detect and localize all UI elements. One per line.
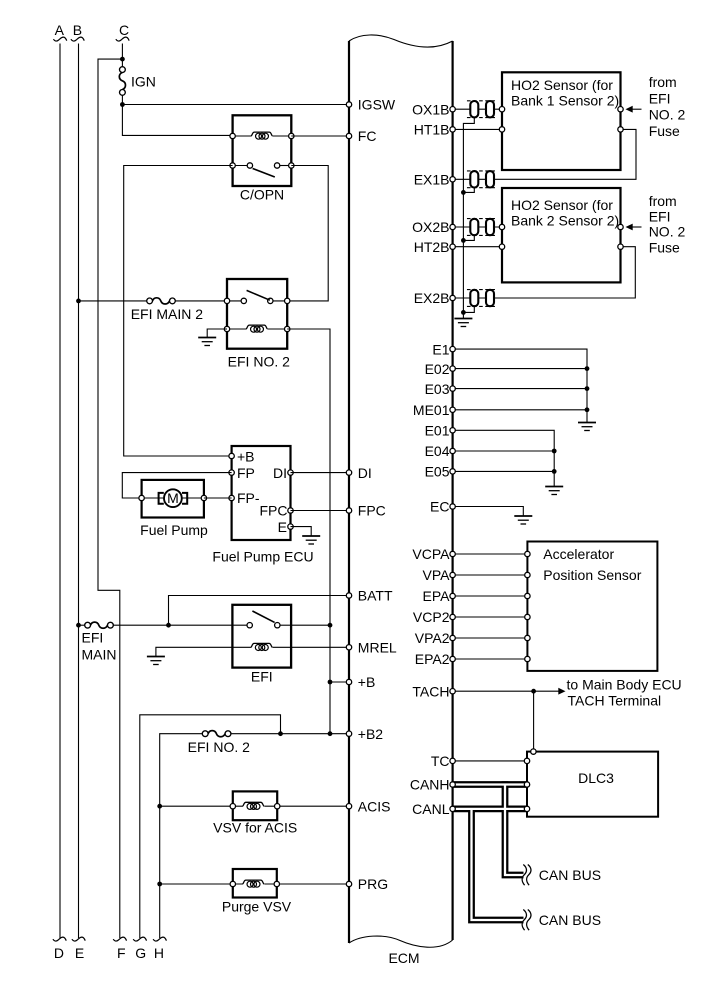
accelerator sensor pins bbox=[525, 551, 530, 661]
relay EFI NO.2 box bbox=[227, 279, 287, 349]
svg-text:Fuse: Fuse bbox=[649, 123, 680, 139]
shield drain OX2B bbox=[463, 235, 474, 240]
svg-text:from: from bbox=[649, 193, 677, 209]
label to Main Body ECU bbox=[567, 677, 682, 693]
wire FPC row bbox=[291, 510, 350, 512]
wire C upper segment bbox=[122, 44, 233, 137]
label EFI MAIN bbox=[82, 630, 117, 663]
Fuel Pump row wire bbox=[142, 497, 204, 499]
label Fuel Pump bbox=[140, 522, 208, 538]
break on wire A top bbox=[53, 37, 66, 41]
svg-text:E: E bbox=[278, 519, 287, 535]
Purge VSV pins bbox=[230, 881, 279, 886]
svg-text:FC: FC bbox=[358, 128, 377, 144]
svg-text:+B2: +B2 bbox=[358, 726, 384, 742]
break on wire H bottom bbox=[153, 937, 166, 941]
fuse EFI MAIN 2 bbox=[147, 298, 176, 304]
C/OPN pins bbox=[230, 133, 294, 168]
svg-text:E03: E03 bbox=[425, 381, 450, 397]
svg-text:OX2B: OX2B bbox=[412, 219, 449, 235]
svg-text:EFI: EFI bbox=[82, 630, 104, 646]
svg-text:Purge VSV: Purge VSV bbox=[222, 899, 292, 915]
svg-text:E: E bbox=[75, 945, 84, 961]
label ECM bbox=[388, 950, 419, 966]
junction drain OX2B bbox=[461, 238, 466, 243]
svg-text:EPA2: EPA2 bbox=[415, 651, 450, 667]
label EFI NO. 2 relay bbox=[228, 354, 290, 370]
ECM bottom edge wavy bbox=[349, 936, 453, 947]
junction BATT tap bbox=[166, 623, 171, 628]
junction TACH bbox=[531, 689, 536, 694]
junction E03 bbox=[585, 386, 590, 391]
EFI switch row wire bbox=[232, 624, 291, 626]
svg-text:to Main Body ECU: to Main Body ECU bbox=[567, 677, 682, 693]
DLC3 pins bbox=[524, 749, 536, 812]
junction +B column to +B2 row bbox=[328, 731, 333, 736]
shield drain EX1B bbox=[463, 188, 474, 193]
label FP- bbox=[237, 490, 260, 506]
connector OX2B bbox=[467, 219, 497, 236]
junction IGN to IGSW bbox=[120, 102, 125, 107]
junction E05 bbox=[552, 469, 557, 474]
wire PRG row bbox=[160, 883, 349, 885]
VSV for ACIS box bbox=[233, 791, 277, 820]
label C/OPN bbox=[240, 187, 284, 203]
svg-text:ACIS: ACIS bbox=[358, 798, 391, 814]
wire E04 row bbox=[453, 450, 555, 452]
svg-text:F: F bbox=[117, 945, 126, 961]
svg-text:EFI MAIN 2: EFI MAIN 2 bbox=[131, 306, 204, 322]
C/OPN switch contacts bbox=[247, 163, 280, 168]
svg-text:B: B bbox=[73, 22, 82, 38]
ECM left edge bbox=[348, 41, 350, 943]
label G bbox=[135, 945, 146, 961]
label FPC inside bbox=[260, 503, 288, 519]
EFI NO.2 switch lever bbox=[247, 290, 270, 300]
junction B to EFI MAIN bbox=[76, 623, 81, 628]
ground EFI NO.2 coil bbox=[198, 338, 216, 346]
svg-text:CAN BUS: CAN BUS bbox=[539, 912, 601, 928]
label +B bbox=[237, 448, 255, 464]
svg-text:VPA: VPA bbox=[423, 567, 451, 583]
break on wire B bottom bbox=[72, 937, 85, 941]
svg-text:FPC: FPC bbox=[260, 503, 288, 519]
wire HT2B row bbox=[453, 246, 502, 248]
wire EFI MAIN row bbox=[79, 624, 233, 626]
HO2 bank1 pins bbox=[499, 107, 623, 133]
arrow from fuse bank1 bbox=[626, 106, 642, 113]
wire EFI NO.2 coil to ground bbox=[207, 329, 227, 338]
CAN bus CANL white core bbox=[453, 809, 527, 920]
svg-text:ECM: ECM bbox=[388, 950, 419, 966]
wire ME01 row bbox=[453, 409, 587, 411]
break on wire G bottom bbox=[133, 937, 146, 941]
Fuel Pump ECU box bbox=[232, 446, 291, 540]
EFI switch lever bbox=[252, 611, 274, 622]
ground Fuel Pump ECU E bbox=[302, 536, 320, 544]
svg-text:EX2B: EX2B bbox=[414, 290, 450, 306]
Fuel Pump ECU right pins bbox=[288, 470, 293, 529]
coil of Purge VSV bbox=[243, 880, 265, 887]
shield drain bus bbox=[463, 118, 474, 313]
svg-text:NO. 2: NO. 2 bbox=[649, 224, 686, 240]
junction EFI switch to +B column bbox=[328, 623, 333, 628]
ground EFI coil bbox=[147, 657, 165, 665]
ground shield drain bbox=[454, 319, 472, 327]
svg-text:VCPA: VCPA bbox=[412, 546, 450, 562]
label HO2 bank2 line1 bbox=[511, 197, 613, 213]
fuse EFI NO. 2 bbox=[202, 731, 231, 737]
svg-text:Accelerator: Accelerator bbox=[543, 546, 614, 562]
wire EFI MAIN 2 row bbox=[79, 300, 228, 302]
ECM left pin labels bbox=[358, 97, 397, 893]
svg-text:E05: E05 bbox=[425, 464, 450, 480]
svg-text:VPA2: VPA2 bbox=[415, 630, 450, 646]
wire HT1B row bbox=[453, 128, 502, 130]
Fuel Pump ECU left pins bbox=[229, 453, 234, 500]
svg-text:FPC: FPC bbox=[358, 503, 386, 519]
wire C/OPN switch right down to EFI NO.2 bbox=[288, 166, 328, 301]
wire OX1B row bbox=[453, 108, 502, 110]
wire ACIS row bbox=[160, 805, 349, 807]
wire TC row bbox=[453, 760, 527, 762]
label D bbox=[54, 945, 64, 961]
svg-text:Fuse: Fuse bbox=[649, 240, 680, 256]
svg-text:IGSW: IGSW bbox=[358, 97, 396, 113]
svg-text:Fuel Pump ECU: Fuel Pump ECU bbox=[212, 549, 313, 565]
EFI NO.2 pins bbox=[224, 298, 290, 332]
junction drain EX1B bbox=[461, 190, 466, 195]
ground EC bbox=[514, 516, 532, 524]
svg-text:EFI: EFI bbox=[649, 208, 671, 224]
wire C/OPN switch left to F column bbox=[124, 166, 233, 457]
label EFI MAIN 2 bbox=[131, 306, 204, 322]
wire MREL row bbox=[291, 646, 349, 648]
wire A bbox=[59, 44, 61, 939]
svg-text:Position Sensor: Position Sensor bbox=[543, 567, 641, 583]
arrow from fuse bank2 bbox=[626, 224, 642, 231]
label F bbox=[117, 945, 126, 961]
HO2 sensor bank1 box bbox=[502, 72, 621, 170]
wire FP- row bbox=[204, 497, 232, 499]
connector OX1B bbox=[467, 101, 497, 118]
svg-text:EPA: EPA bbox=[423, 588, 451, 604]
ground E1 group bbox=[578, 423, 596, 431]
coil of EFI relay bbox=[251, 643, 273, 650]
svg-text:ME01: ME01 bbox=[413, 402, 450, 418]
wire branch C to F bbox=[98, 59, 122, 938]
svg-text:HO2 Sensor (for: HO2 Sensor (for bbox=[511, 197, 613, 213]
svg-text:PRG: PRG bbox=[358, 876, 388, 892]
junction H to ACIS bbox=[157, 804, 162, 809]
svg-text:C: C bbox=[119, 22, 129, 38]
wire +B row bbox=[330, 681, 349, 683]
wire E03 row bbox=[453, 388, 587, 390]
label CAN BUS 2 bbox=[539, 912, 601, 928]
junction +B bbox=[328, 680, 333, 685]
label HO2 bank2 line2 bbox=[511, 212, 619, 228]
svg-text:Fuel Pump: Fuel Pump bbox=[140, 522, 208, 538]
EFI coil row wire bbox=[232, 646, 291, 648]
Purge VSV box bbox=[233, 869, 277, 898]
wire FP loop bbox=[122, 473, 231, 498]
connector EX2B bbox=[467, 290, 497, 307]
label Position Sensor bbox=[543, 567, 641, 583]
wire OX2B row bbox=[453, 226, 502, 228]
svg-text:from: from bbox=[649, 74, 677, 90]
coil of C/OPN bbox=[251, 132, 273, 139]
wire TACH row bbox=[453, 690, 559, 692]
fuse IGN bbox=[119, 67, 125, 96]
svg-text:E02: E02 bbox=[425, 361, 450, 377]
svg-text:EX1B: EX1B bbox=[414, 172, 450, 188]
svg-text:C/OPN: C/OPN bbox=[240, 187, 284, 203]
break CAN BUS 1 bbox=[522, 865, 531, 886]
junction E02 bbox=[585, 366, 590, 371]
svg-text:TACH Terminal: TACH Terminal bbox=[568, 692, 662, 708]
svg-text:HT1B: HT1B bbox=[414, 122, 450, 138]
break on wire B top bbox=[71, 37, 84, 41]
wire EX1B row bbox=[453, 129, 636, 179]
svg-text:Bank 1 Sensor 2): Bank 1 Sensor 2) bbox=[511, 93, 619, 109]
svg-text:MAIN: MAIN bbox=[82, 647, 117, 663]
wire E1 row bbox=[453, 349, 587, 422]
svg-text:+B: +B bbox=[237, 448, 255, 464]
coil of EFI NO.2 bbox=[246, 325, 268, 332]
svg-text:+B: +B bbox=[358, 674, 376, 690]
svg-text:CANL: CANL bbox=[412, 801, 450, 817]
wire EX2B row bbox=[453, 247, 636, 298]
svg-text:FP: FP bbox=[237, 465, 255, 481]
svg-text:A: A bbox=[55, 22, 65, 38]
svg-text:EFI: EFI bbox=[649, 90, 671, 106]
label Accelerator bbox=[543, 546, 614, 562]
label TACH Terminal bbox=[568, 692, 662, 708]
ECM right edge bbox=[452, 41, 454, 940]
HO2 sensor bank2 box bbox=[502, 188, 621, 282]
label A bbox=[55, 22, 65, 38]
wire G bbox=[140, 715, 281, 938]
label EFI relay bbox=[251, 669, 273, 685]
label Purge VSV bbox=[222, 899, 292, 915]
wire TACH to DLC3 bbox=[533, 691, 535, 751]
svg-text:H: H bbox=[154, 945, 164, 961]
DLC3 box bbox=[527, 752, 658, 817]
wire E05 row bbox=[453, 470, 555, 472]
svg-text:HO2 Sensor (for: HO2 Sensor (for bbox=[511, 77, 613, 93]
arrow to Main Body ECU bbox=[558, 688, 565, 695]
label B bbox=[73, 22, 82, 38]
svg-text:EFI NO. 2: EFI NO. 2 bbox=[228, 354, 290, 370]
svg-text:TC: TC bbox=[431, 753, 450, 769]
wires accelerator sensor rows bbox=[453, 554, 528, 659]
C/OPN switch lever bbox=[253, 169, 275, 178]
junction G to +B2 row bbox=[278, 731, 283, 736]
C/OPN switch row wire bbox=[233, 165, 292, 167]
break on wire C top bbox=[116, 37, 129, 41]
svg-text:EC: EC bbox=[430, 499, 449, 515]
wire E02 row bbox=[453, 368, 587, 370]
break CAN BUS 2 bbox=[522, 910, 531, 931]
break on wire F bottom bbox=[113, 937, 126, 941]
label DI inside bbox=[273, 465, 287, 481]
svg-text:E04: E04 bbox=[425, 443, 450, 459]
label Fuel Pump ECU bbox=[212, 549, 313, 565]
label CAN BUS 1 bbox=[539, 867, 601, 883]
break on wire A bottom bbox=[53, 937, 66, 941]
ECM top edge wavy bbox=[349, 35, 453, 47]
wire EFI coil to ground bbox=[156, 647, 233, 656]
svg-text:FP-: FP- bbox=[237, 490, 260, 506]
wire EC row bbox=[453, 507, 524, 517]
ECM left pin circles bbox=[346, 102, 351, 887]
junction B to EFI MAIN 2 bbox=[76, 299, 81, 304]
ECM right pin labels bbox=[410, 101, 450, 817]
label DLC3 bbox=[578, 770, 614, 786]
svg-text:Bank 2 Sensor 2): Bank 2 Sensor 2) bbox=[511, 212, 619, 228]
svg-text:HT2B: HT2B bbox=[414, 239, 450, 255]
CAN bus CANH black bbox=[453, 781, 527, 875]
wire DI row bbox=[291, 472, 350, 474]
junction ME01 bbox=[585, 407, 590, 412]
junction E04 bbox=[552, 449, 557, 454]
motor M circle bbox=[164, 489, 182, 507]
wire drain to ground bbox=[462, 312, 464, 318]
svg-text:CAN BUS: CAN BUS bbox=[539, 867, 601, 883]
svg-text:EFI: EFI bbox=[251, 669, 273, 685]
svg-text:M: M bbox=[167, 490, 179, 506]
coil of VSV for ACIS bbox=[243, 802, 265, 809]
C/OPN coil row wire bbox=[233, 135, 292, 137]
ground E01 group bbox=[545, 487, 563, 495]
junction H to PRG bbox=[157, 882, 162, 887]
svg-text:DLC3: DLC3 bbox=[578, 770, 614, 786]
wire EFI NO.2 coil output down to +B/+B2 bbox=[287, 329, 330, 734]
EFI NO.2 switch row wire bbox=[227, 300, 287, 302]
svg-text:OX1B: OX1B bbox=[412, 101, 449, 117]
VSV for ACIS pins bbox=[230, 804, 280, 809]
wire B bbox=[78, 44, 80, 939]
label C bbox=[119, 22, 129, 38]
label from EFI NO.2 Fuse bank1 bbox=[649, 74, 686, 139]
svg-text:DI: DI bbox=[358, 465, 372, 481]
label FP bbox=[237, 465, 255, 481]
ECM right pin circles bbox=[450, 107, 455, 812]
label E inside bbox=[278, 519, 287, 535]
Fuel Pump pins bbox=[139, 495, 207, 500]
motor brushes bbox=[159, 493, 188, 504]
wire +B2 row bbox=[160, 734, 349, 938]
wire BATT row bbox=[169, 596, 350, 626]
wire E to ground bbox=[291, 527, 312, 536]
label VSV for ACIS bbox=[213, 820, 297, 836]
Accelerator Position Sensor box bbox=[527, 542, 657, 671]
svg-text:E1: E1 bbox=[432, 341, 449, 357]
HO2 bank2 pins bbox=[499, 224, 623, 249]
junction C/F bbox=[120, 57, 125, 62]
svg-text:CANH: CANH bbox=[410, 777, 450, 793]
EFI NO.2 switch contacts bbox=[241, 298, 273, 303]
svg-text:EFI NO. 2: EFI NO. 2 bbox=[188, 739, 250, 755]
svg-text:G: G bbox=[135, 945, 146, 961]
svg-text:NO. 2: NO. 2 bbox=[649, 107, 686, 123]
EFI NO.2 coil row wire bbox=[227, 328, 287, 330]
svg-text:MREL: MREL bbox=[358, 640, 397, 656]
label EFI NO. 2 fuse bbox=[188, 739, 250, 755]
svg-text:D: D bbox=[54, 945, 64, 961]
CAN bus CANH white core bbox=[453, 785, 527, 876]
svg-text:TACH: TACH bbox=[412, 683, 449, 699]
wire E01 row bbox=[453, 430, 555, 486]
relay EFI box bbox=[232, 605, 291, 668]
label HO2 bank1 line1 bbox=[511, 77, 613, 93]
label IGN bbox=[131, 74, 156, 90]
junction drain EX2B bbox=[461, 310, 466, 315]
wire FC row bbox=[291, 135, 349, 137]
shield drain EX2B bbox=[463, 306, 474, 312]
svg-text:IGN: IGN bbox=[131, 74, 156, 90]
fuse EFI MAIN bbox=[85, 622, 114, 628]
svg-text:VSV for ACIS: VSV for ACIS bbox=[213, 820, 297, 836]
CAN bus CANL black bbox=[453, 806, 527, 920]
connector EX1B bbox=[467, 171, 497, 188]
svg-text:E01: E01 bbox=[425, 423, 450, 439]
label M bbox=[167, 490, 179, 506]
label HO2 bank1 line2 bbox=[511, 93, 619, 109]
wire EFI switch output right bbox=[291, 624, 330, 626]
label from EFI NO.2 Fuse bank2 bbox=[649, 193, 686, 256]
EFI switch contacts bbox=[247, 623, 280, 628]
svg-text:BATT: BATT bbox=[358, 588, 393, 604]
label H bbox=[154, 945, 164, 961]
Fuel Pump box bbox=[142, 480, 204, 518]
label E bbox=[75, 945, 84, 961]
relay C/OPN box bbox=[233, 115, 292, 186]
wire IGSW row bbox=[122, 104, 349, 106]
svg-text:DI: DI bbox=[273, 465, 287, 481]
svg-text:VCP2: VCP2 bbox=[413, 609, 450, 625]
